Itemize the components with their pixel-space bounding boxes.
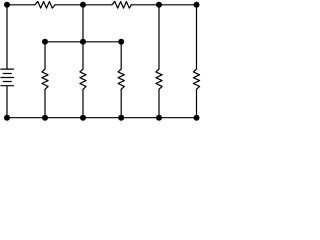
node bottom col5 junction: [156, 115, 162, 121]
node top col5 junction: [156, 2, 162, 8]
node top col3 junction: [80, 2, 86, 8]
wire column4 lower: [120, 89, 122, 117]
wire top bus segment A: [7, 4, 35, 6]
wire column4 upper: [120, 42, 122, 69]
node mid col3 junction: [80, 39, 86, 45]
node bottom col4 junction: [118, 115, 124, 121]
node top-right junction: [194, 2, 200, 8]
wire middle bus: [45, 41, 121, 43]
wire top bus segment B: [55, 4, 112, 6]
wire column6 upper: [196, 5, 198, 69]
wire column2 lower: [44, 89, 46, 117]
wire column6 lower: [196, 89, 198, 117]
wire bottom bus: [7, 117, 197, 119]
resistor R2: [112, 1, 131, 8]
node bottom-right junction: [194, 115, 200, 121]
resistor R7: [193, 69, 199, 89]
wire column3 lower: [82, 89, 84, 117]
resistor R6: [156, 69, 162, 89]
node top-left junction: [4, 2, 10, 8]
resistor R5: [118, 69, 124, 89]
wire column5 lower: [158, 89, 160, 117]
resistor R3: [42, 69, 48, 89]
node bottom col2 junction: [42, 115, 48, 121]
wire column5 upper: [158, 5, 160, 69]
wire column3 upper: [82, 5, 84, 69]
node mid col2 junction: [42, 39, 48, 45]
node bottom col3 junction: [80, 115, 86, 121]
wire left column lower: [6, 86, 8, 118]
wire left column upper: [6, 5, 8, 69]
resistor R1: [35, 1, 55, 8]
resistor R4: [80, 69, 86, 89]
node bottom-left junction: [4, 115, 10, 121]
battery V1: [1, 69, 14, 86]
node mid col4 junction: [118, 39, 124, 45]
wire column2 upper: [44, 42, 46, 69]
wire top bus segment C: [131, 4, 196, 6]
